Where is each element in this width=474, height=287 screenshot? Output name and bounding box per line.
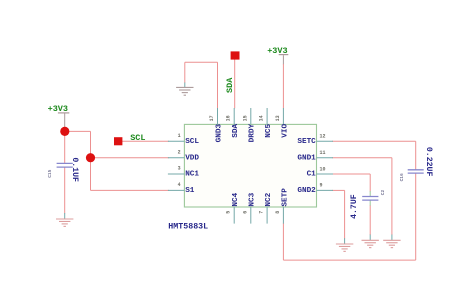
svg-text:NC4: NC4	[232, 192, 240, 206]
pin 6 NC3 (bottom)	[242, 192, 256, 223]
svg-text:10: 10	[320, 166, 326, 172]
svg-text:17: 17	[209, 115, 215, 121]
pin 5 NC4 (bottom)	[226, 192, 240, 223]
svg-text:16: 16	[226, 115, 232, 121]
capacitor C2 4.7UF	[350, 189, 386, 218]
svg-text:0.1UF: 0.1UF	[70, 157, 79, 182]
net label SDA	[225, 77, 235, 93]
svg-text:13: 13	[275, 115, 281, 121]
wire VDD net: junction to pin 2	[91, 157, 170, 159]
capacitor C15 0.1UF	[47, 157, 79, 182]
pin 3 NC1 (left)	[168, 166, 200, 179]
svg-text:NC2: NC2	[265, 192, 273, 206]
svg-text:6: 6	[242, 211, 248, 214]
svg-text:4.7UF: 4.7UF	[350, 194, 359, 219]
capacitor C16 0.22UF	[399, 147, 433, 182]
svg-text:3: 3	[178, 166, 181, 172]
net label SCL	[130, 133, 145, 143]
pin 8 SETP (bottom)	[275, 188, 289, 224]
ground left (C15)	[56, 219, 73, 226]
op-amp/IC U1 HMT5883L body	[184, 124, 316, 207]
svg-text:GND1: GND1	[297, 154, 316, 162]
pin 2 VDD (left)	[168, 149, 200, 162]
svg-text:GND3: GND3	[215, 124, 223, 143]
wire C15 to ground	[64, 167, 66, 219]
svg-text:7: 7	[259, 211, 265, 214]
svg-text:C16: C16	[399, 173, 405, 181]
svg-text:5: 5	[226, 211, 232, 214]
wire GND3 pin 17 to ground	[185, 62, 218, 108]
no-ERC marker on SDA	[231, 51, 240, 59]
svg-text:S1: S1	[185, 187, 195, 195]
pin 17 GND3 (top)	[209, 108, 223, 142]
wire +3V3 rail down to C15	[64, 114, 66, 164]
wire +3V3 to VIO pin 13	[282, 55, 284, 108]
svg-text:C15: C15	[47, 169, 53, 177]
svg-text:SETP: SETP	[281, 188, 289, 207]
svg-text:C1: C1	[307, 171, 317, 179]
svg-text:SDA: SDA	[232, 124, 240, 138]
wire SETC net: pin 12 to C16	[332, 141, 416, 170]
ground GND1 net	[383, 240, 400, 247]
svg-text:HMT5883L: HMT5883L	[168, 222, 208, 231]
svg-text:DRDY: DRDY	[249, 124, 257, 143]
wire C1 pin 10 to C2 cap	[332, 174, 370, 196]
svg-text:1: 1	[178, 133, 181, 139]
svg-text:NC3: NC3	[249, 192, 257, 206]
svg-text:14: 14	[259, 115, 265, 121]
svg-text:VIO: VIO	[281, 124, 289, 138]
svg-text:11: 11	[320, 150, 326, 156]
svg-text:8: 8	[275, 211, 281, 214]
junction node A on +3V3 rail	[60, 127, 69, 136]
power +3V3 (left)	[48, 104, 70, 114]
junction node B on VDD branch	[86, 153, 95, 162]
svg-text:0.22UF: 0.22UF	[424, 147, 433, 177]
wire S1 net: vertical drop to pin 4	[91, 131, 170, 190]
svg-text:C2: C2	[380, 189, 386, 195]
svg-text:2: 2	[178, 149, 181, 155]
pin 4 S1 (left)	[168, 182, 195, 195]
pin 13 VIO (top)	[275, 108, 289, 138]
pin 12 SETC (right)	[297, 134, 333, 146]
ground top (GND3)	[176, 87, 193, 95]
pin 10 C1 (right)	[307, 166, 333, 178]
ground C2 cap	[362, 240, 379, 247]
wire GND1 pin 11 to ground	[332, 158, 392, 241]
pin 11 GND1 (right)	[297, 150, 333, 162]
pin 16 SDA (top)	[226, 108, 240, 138]
svg-text:9: 9	[320, 183, 323, 189]
svg-text:SCL: SCL	[130, 133, 145, 143]
pin 15 DRDY (top)	[242, 108, 256, 142]
svg-text:4: 4	[178, 182, 181, 188]
no-ERC marker on SCL	[114, 137, 122, 145]
svg-text:VDD: VDD	[185, 154, 199, 162]
IC designator text HMT5883L	[168, 222, 208, 231]
ground GND2 net	[336, 244, 353, 251]
svg-text:12: 12	[320, 134, 326, 140]
wire GND2 pin 9 to ground	[332, 190, 345, 244]
pin 1 SCL (left)	[168, 133, 200, 146]
svg-text:SCL: SCL	[185, 138, 199, 146]
pin 9 GND2 (right)	[297, 183, 333, 195]
svg-text:SDA: SDA	[225, 77, 235, 93]
svg-text:NC5: NC5	[265, 124, 273, 138]
wire +3V3 branch from junction A	[65, 130, 91, 132]
pin 7 NC2 (bottom)	[259, 192, 273, 223]
svg-text:GND2: GND2	[297, 187, 316, 195]
wire SDA net: marker to pin 16	[234, 59, 236, 108]
wire C2 cap to ground	[369, 200, 371, 240]
svg-text:15: 15	[242, 115, 248, 121]
svg-text:SETC: SETC	[297, 138, 316, 146]
power +3V3 (top right)	[267, 46, 288, 56]
svg-text:NC1: NC1	[185, 171, 199, 179]
wire SCL net: marker to pin 1	[122, 140, 169, 142]
wire C16 to SETP loop	[283, 173, 415, 260]
pin 14 NC5 (top)	[259, 108, 273, 138]
